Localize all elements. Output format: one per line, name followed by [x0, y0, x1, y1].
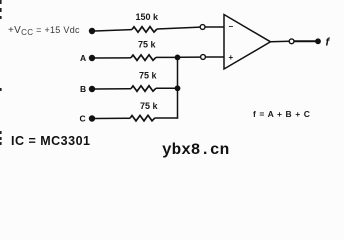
left page-edge dashes: [0, 0, 2, 145]
op-amp U1 triangle MC3301: [224, 15, 271, 70]
node f terminal dot: [315, 38, 321, 44]
wire output to circle: [271, 40, 290, 43]
wire R2 to junction: [156, 56, 178, 58]
node A terminal dot: [89, 55, 95, 61]
svg-text:+: +: [229, 53, 234, 62]
node C terminal dot: [89, 115, 95, 121]
svg-text:75 k: 75 k: [140, 101, 159, 111]
wire junction to noninverting circle: [180, 56, 201, 58]
pin circle op-amp inverting input: [200, 25, 205, 30]
svg-text:C: C: [80, 114, 86, 124]
svg-text:ybx8.cn: ybx8.cn: [162, 141, 229, 159]
svg-text:150 k: 150 k: [136, 12, 160, 22]
node VCC terminal dot: [89, 28, 95, 34]
svg-text:75 k: 75 k: [138, 40, 157, 50]
wire R1 to inverting input circle: [157, 27, 200, 29]
svg-text:A: A: [80, 53, 86, 63]
wire VCC dot to R1: [95, 30, 132, 31]
junction dot (B row): [175, 85, 181, 91]
svg-text:IC = MC3301: IC = MC3301: [11, 134, 91, 148]
wire C to R4: [95, 117, 130, 119]
pin circle op-amp noninverting input: [201, 55, 206, 60]
wire circle to op-amp plus pin: [205, 56, 224, 58]
resistor R2 75k zigzag: [131, 55, 156, 61]
wire R3 to junction: [156, 87, 178, 89]
wire R4 to junction column: [155, 117, 178, 119]
wire output circle to node f: [294, 40, 316, 42]
svg-text:f = A + B + C: f = A + B + C: [253, 109, 310, 119]
resistor R3 75k zigzag: [131, 86, 156, 92]
wire circle to op-amp minus pin: [205, 26, 224, 28]
resistor R1 150k zigzag: [132, 27, 157, 33]
junction dot node S (A row): [175, 55, 181, 61]
pin circle output: [289, 39, 294, 44]
wire A to R2: [95, 57, 131, 59]
wire B to R3: [95, 88, 131, 90]
node B terminal dot: [89, 86, 95, 92]
svg-text:B: B: [80, 84, 86, 94]
svg-text:−: −: [229, 22, 234, 31]
resistor R4 75k zigzag: [130, 115, 155, 121]
wire summing junction vertical: [177, 57, 179, 118]
svg-text:75 k: 75 k: [139, 70, 158, 80]
